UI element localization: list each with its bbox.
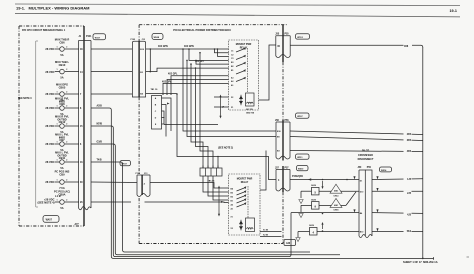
svg-text:X2: X2 bbox=[231, 228, 233, 230]
svg-text:2: 2 bbox=[66, 46, 67, 48]
svg-text:19-1: 19-1 bbox=[450, 9, 457, 13]
small arrow P near TB1C6 bbox=[167, 103, 170, 105]
distribution box right border bulkhead line bbox=[282, 62, 284, 244]
svg-text:CB9: CB9 bbox=[59, 173, 65, 177]
wire TB1C6 C lateral bbox=[162, 111, 219, 125]
28VDC feed bracket bbox=[36, 41, 38, 207]
svg-text:A1: A1 bbox=[231, 208, 233, 211]
svg-text:L1 B: L1 B bbox=[55, 194, 61, 198]
harness tag W512 bbox=[296, 34, 310, 39]
svg-text:P101: P101 bbox=[86, 36, 92, 38]
svg-text:(SEE NOTE 2): (SEE NOTE 2) bbox=[218, 148, 233, 150]
svg-text:28 VDC: 28 VDC bbox=[45, 70, 54, 74]
svg-text:T4/B: T4/B bbox=[97, 159, 102, 162]
svg-text:CB6: CB6 bbox=[59, 40, 65, 44]
corner tag A40 bbox=[284, 240, 296, 246]
circuit breaker CB9 (PC PGS INS) bbox=[45, 170, 83, 190]
svg-text:1: 1 bbox=[57, 91, 58, 93]
svg-text:MOSFET PWR: MOSFET PWR bbox=[237, 178, 253, 180]
svg-text:19-1. MULTIPLEX - WIRING DIA: 19-1. MULTIPLEX - WIRING DIAGRAM bbox=[16, 6, 90, 11]
connector J1/P101 bbox=[75, 36, 93, 226]
crossfeed connector J50/P50 bbox=[358, 167, 373, 237]
svg-text:X1: X1 bbox=[231, 217, 233, 219]
node dot row1 x183 bbox=[182, 48, 184, 50]
svg-text:1: 1 bbox=[57, 123, 58, 125]
title rule bottom bbox=[15, 13, 460, 17]
node dot row1 x189 bbox=[188, 48, 190, 50]
title rule top bbox=[15, 4, 460, 6]
wire tag 1D8 bbox=[404, 43, 413, 47]
wire J56 B9 to bus bbox=[290, 137, 423, 141]
electrical power distribution box enclosure bbox=[139, 25, 288, 244]
long vertical x177 from row3 to J57 feed bbox=[177, 94, 276, 180]
svg-text:X1: X1 bbox=[231, 107, 233, 109]
wire TB1C6 A to J56 row bbox=[162, 98, 172, 131]
svg-text:2D5: 2D5 bbox=[407, 134, 412, 136]
svg-text:W517: W517 bbox=[121, 164, 127, 166]
node dot at x322.5 bbox=[322, 179, 324, 181]
terminal block TB1-06 bbox=[200, 166, 222, 183]
long vertical from row1 x183 down to J56 B10 bbox=[183, 49, 276, 131]
svg-text:4X2 GPN: 4X2 GPN bbox=[158, 45, 168, 48]
svg-text:C1: C1 bbox=[231, 51, 233, 53]
svg-text:3D5: 3D5 bbox=[407, 140, 412, 142]
ground G029 box 5 row bbox=[299, 185, 359, 203]
right vertical bus bbox=[422, 47, 424, 258]
svg-text:SHEET 1 OF 17 M82-202-1A: SHEET 1 OF 17 M82-202-1A bbox=[403, 260, 438, 264]
svg-text:C3: C3 bbox=[231, 58, 233, 60]
svg-text:CROSSFEED: CROSSFEED bbox=[358, 154, 373, 157]
svg-text:CHA1: CHA1 bbox=[333, 195, 338, 198]
twisted pair arrows x322.5 bbox=[322, 181, 324, 187]
svg-text:28 VDC: 28 VDC bbox=[45, 142, 54, 146]
harness tag W507b bbox=[296, 113, 310, 118]
harness tag WA07 bbox=[43, 216, 59, 223]
harness tag W511 bbox=[296, 154, 310, 159]
svg-text:P50: P50 bbox=[367, 167, 372, 169]
svg-text:5A: 5A bbox=[60, 206, 63, 210]
wire P103 pin6 to relay K2 pin B4 bbox=[150, 183, 229, 189]
svg-text:7.5A: 7.5A bbox=[59, 186, 65, 190]
svg-text:P/O CPU CIRCUIT BREAKER PANEL: P/O CPU CIRCUIT BREAKER PANEL 1 bbox=[22, 29, 66, 32]
svg-text:5K2: 5K2 bbox=[407, 231, 412, 233]
svg-text:B2: B2 bbox=[231, 197, 233, 199]
wire to relay pin B3 from drop x189 bbox=[189, 49, 229, 60]
svg-text:28 VDC: 28 VDC bbox=[45, 47, 54, 51]
svg-text:1: 1 bbox=[57, 46, 58, 48]
svg-text:CB05: CB05 bbox=[59, 85, 66, 89]
connector J57/P57 bbox=[275, 167, 290, 191]
bus tap labels bbox=[404, 132, 412, 136]
svg-text:1: 1 bbox=[57, 159, 58, 161]
arrowhead on crossfeed wire bbox=[308, 178, 311, 180]
svg-text:X2: X2 bbox=[231, 97, 233, 99]
svg-text:2: 2 bbox=[66, 91, 67, 93]
svg-text:A3: A3 bbox=[231, 76, 233, 79]
svg-text:5A: 5A bbox=[60, 166, 63, 170]
svg-text:28 VDC: 28 VDC bbox=[45, 124, 54, 128]
relay K2 MOSFET PWR RELAY bbox=[229, 174, 261, 235]
circuit breaker CB12 (MUX R PVL OUTBD) bbox=[45, 115, 83, 134]
circuit breaker CB11 (MUX L PVL OUTBD) bbox=[45, 151, 83, 170]
pilot crossfeed disconnect title bbox=[358, 150, 374, 161]
svg-text:CB10: CB10 bbox=[59, 63, 66, 67]
svg-text:P/O ELECTRICAL POWER DISTRIBUT: P/O ELECTRICAL POWER DISTRIBUTION BOX bbox=[173, 28, 231, 32]
svg-text:A2: A2 bbox=[231, 80, 233, 83]
svg-text:1: 1 bbox=[57, 105, 58, 107]
svg-text:C2: C2 bbox=[231, 54, 233, 56]
svg-text:1: 1 bbox=[57, 69, 58, 71]
connector J55/P55 bbox=[275, 34, 290, 58]
svg-text:A1: A1 bbox=[231, 84, 233, 87]
bus tap labels right bbox=[404, 177, 412, 181]
svg-text:1D8: 1D8 bbox=[404, 46, 409, 48]
svg-text:P15E/QPA: P15E/QPA bbox=[292, 175, 303, 178]
wire row2 P102 to relay K1 pin B1 bbox=[146, 68, 229, 72]
relay K1 coil bbox=[246, 93, 255, 106]
connector P102/J12 bbox=[131, 39, 146, 97]
diagonal link triangle2 to pin D10 bbox=[346, 192, 356, 206]
wire riser to relay pin A1 bbox=[163, 83, 229, 94]
wire drop to relay pin C3 bbox=[218, 49, 229, 56]
circuit breaker CB05 (MUX DPG) bbox=[45, 82, 82, 101]
svg-text:B1: B1 bbox=[231, 70, 233, 72]
wire J55 to right bus bbox=[290, 45, 423, 47]
relay K1 MOSFET PWR RELAY bbox=[229, 40, 259, 110]
svg-text:28 VDC: 28 VDC bbox=[45, 106, 54, 110]
svg-text:P57: P57 bbox=[285, 167, 290, 169]
wire to relay pin B2 from drop x196 bbox=[196, 60, 229, 64]
svg-text:D1: D1 bbox=[360, 180, 362, 182]
relay K2 suppression diodes bbox=[239, 221, 243, 224]
svg-text:W512: W512 bbox=[297, 37, 303, 39]
svg-text:TB1 C6: TB1 C6 bbox=[151, 89, 159, 91]
svg-text:W511: W511 bbox=[297, 157, 303, 159]
svg-text:1: 1 bbox=[57, 179, 58, 181]
svg-text:W507: W507 bbox=[297, 116, 303, 118]
wire CB9A row to P103 bbox=[91, 201, 131, 203]
svg-text:X1 /B: X1 /B bbox=[263, 230, 269, 232]
node dot row1 x161 bbox=[150, 48, 152, 50]
svg-text:MA1: MA1 bbox=[334, 204, 338, 207]
wire CB8 row down to bottom bus bbox=[91, 108, 434, 258]
harness tag W117 bbox=[93, 34, 106, 40]
wire CB11 row down along bottom bbox=[91, 162, 310, 252]
CPU circuit breaker panel enclosure bbox=[19, 26, 84, 226]
svg-text:WA07: WA07 bbox=[46, 219, 53, 222]
ground symbol bbox=[300, 191, 302, 198]
svg-text:1: 1 bbox=[57, 199, 58, 201]
svg-text:1: 1 bbox=[57, 141, 58, 143]
buffer amp triangle 2 bbox=[330, 198, 342, 211]
svg-text:SEE NOTE 3: SEE NOTE 3 bbox=[18, 98, 32, 100]
circuit breaker CB9A (PC PGS (AC)) bbox=[37, 190, 83, 210]
circuit breaker CB8 (MUX R PVL INBD) bbox=[45, 97, 82, 116]
wire CB7 row down along bottom bbox=[91, 144, 340, 255]
svg-text:B3: B3 bbox=[231, 193, 233, 195]
svg-text:M7/B: M7/B bbox=[97, 124, 103, 126]
wire TB1C6 D stub bbox=[162, 117, 165, 119]
svg-text:B2: B2 bbox=[231, 66, 233, 68]
svg-text:2: 2 bbox=[66, 105, 67, 107]
svg-text:D10: D10 bbox=[360, 191, 363, 193]
svg-text:W514: W514 bbox=[381, 169, 387, 172]
harness tag W514 bbox=[380, 167, 392, 172]
svg-text:28 VDC: 28 VDC bbox=[45, 160, 54, 164]
svg-text:4X2 GPL: 4X2 GPL bbox=[168, 73, 178, 76]
svg-text:RELAY: RELAY bbox=[241, 181, 249, 184]
svg-text:W508: W508 bbox=[154, 37, 160, 39]
ground G029 box 4 row bbox=[296, 225, 359, 241]
svg-text:4D5: 4D5 bbox=[407, 150, 412, 153]
svg-text:2: 2 bbox=[66, 123, 67, 125]
crossfeed outputs to bus bbox=[372, 178, 423, 181]
coil feed stubs bbox=[214, 97, 229, 107]
wire P103 pin4 to relay K2 pin B2 bbox=[145, 201, 229, 204]
relay K2 coil bbox=[246, 218, 255, 232]
svg-text:A40: A40 bbox=[286, 242, 291, 245]
svg-text:2: 2 bbox=[66, 199, 67, 201]
svg-text:X2 /B: X2 /B bbox=[263, 235, 269, 237]
wire TB1C6 B to J56 row bbox=[162, 105, 167, 137]
svg-text:28 VDC: 28 VDC bbox=[45, 180, 54, 184]
svg-text:B1: B1 bbox=[231, 201, 233, 203]
wire TB1-06 down feeds bbox=[203, 176, 229, 192]
svg-text:NO 7/B: NO 7/B bbox=[246, 109, 253, 111]
wire J56 B10 to bus bbox=[290, 131, 423, 135]
svg-text:CHB1: CHB1 bbox=[333, 210, 338, 212]
crossfeed row B4 bbox=[291, 212, 359, 214]
panel right border heavy line bbox=[83, 26, 85, 226]
svg-text:TB1-06: TB1-06 bbox=[208, 180, 216, 182]
svg-text:A77: A77 bbox=[75, 223, 80, 226]
relay K2 feed from J56 B3 riser bbox=[260, 151, 266, 191]
long vertical x200 from row C2 to TB1-06 bbox=[200, 53, 213, 168]
svg-text:2: 2 bbox=[66, 69, 67, 71]
drop to TB1-06 pin Z bbox=[217, 157, 219, 169]
svg-text:W510: W510 bbox=[298, 169, 304, 171]
svg-text:B3: B3 bbox=[231, 62, 233, 64]
harness tag W508 bbox=[152, 34, 163, 40]
svg-text:MOSFET PWR: MOSFET PWR bbox=[236, 44, 252, 46]
svg-text:2: 2 bbox=[66, 141, 67, 143]
svg-text:GND 7/B: GND 7/B bbox=[246, 112, 255, 114]
wire riser to relay pin A3 bbox=[171, 76, 229, 94]
vertical link row1 to row2 bbox=[149, 49, 151, 72]
wire row3 P102 to staircase bbox=[146, 93, 177, 95]
svg-text:G3/B: G3/B bbox=[97, 142, 103, 144]
wire CB05 row to P102 bbox=[91, 93, 132, 95]
twisted pair indicator P lower bbox=[218, 186, 223, 217]
wire CB6 row to P102 bbox=[91, 48, 132, 50]
relay K2 X wires out bbox=[260, 231, 282, 233]
terminal block TB1 C6 bbox=[151, 89, 162, 129]
svg-text:W117: W117 bbox=[95, 37, 101, 39]
wire relay K1 NO to J55 bbox=[259, 45, 277, 100]
svg-text:B10: B10 bbox=[360, 232, 363, 234]
svg-text:A2/B: A2/B bbox=[97, 105, 103, 108]
harness tag W517 bbox=[120, 161, 131, 166]
svg-text:2: 2 bbox=[66, 179, 67, 181]
circuit breaker CB6 (MUX THB R) bbox=[45, 37, 83, 56]
page edge tick mark bbox=[467, 256, 470, 258]
svg-text:MA1: MA1 bbox=[334, 190, 338, 193]
svg-text:PILOT: PILOT bbox=[362, 150, 370, 153]
long vertical x187 from row B3 to J56 B9 bbox=[187, 60, 276, 136]
svg-text:5A: 5A bbox=[60, 53, 63, 57]
svg-text:P55: P55 bbox=[285, 34, 290, 36]
svg-text:4X2 GPN: 4X2 GPN bbox=[184, 45, 194, 48]
circuit breaker CB10 (MUX THB L) bbox=[45, 60, 83, 79]
svg-text:(SEE NOTE 4): (SEE NOTE 4) bbox=[37, 201, 54, 205]
wire drop to relay pin C2 bbox=[215, 49, 229, 53]
wire TB1C6 E stub bbox=[162, 123, 165, 125]
long vertical x195.5 from row B1 to TB1-06 bbox=[196, 68, 209, 168]
P arrows after connector bbox=[376, 176, 378, 179]
svg-text:DISCONNECT: DISCONNECT bbox=[358, 158, 374, 161]
ground G029 box 9 row bbox=[299, 192, 356, 218]
wire CB12 row down to crossfeed row B4 bbox=[91, 126, 291, 257]
buffer amp triangle 1 bbox=[330, 184, 342, 197]
svg-text:5A: 5A bbox=[60, 75, 63, 79]
relay K1 suppression diodes bbox=[239, 96, 243, 99]
long vertical x191 from row B2 to TB1-06 bbox=[191, 64, 203, 168]
svg-text:2: 2 bbox=[66, 159, 67, 161]
wire CB10 row to P102 bbox=[91, 71, 132, 73]
connector J56/P56 bbox=[275, 120, 290, 159]
node dot at x347 bbox=[346, 179, 348, 181]
wire J56 B3 to bus bbox=[290, 151, 423, 152]
svg-text:28 VDC: 28 VDC bbox=[45, 92, 54, 96]
wire CB9 row to P103 bbox=[91, 181, 137, 184]
svg-text:A2: A2 bbox=[231, 204, 233, 207]
circuit breaker CB7 (MUX L PVL INBD) bbox=[45, 133, 82, 152]
twisted pair indicator P upper bbox=[219, 95, 224, 119]
harness tag W510 bbox=[297, 166, 309, 171]
connector P103/J13 bbox=[136, 173, 151, 197]
wire row1 P102 to relay K1 pin C1 bbox=[146, 48, 229, 50]
wire riser to relay pin A2 bbox=[167, 80, 229, 95]
